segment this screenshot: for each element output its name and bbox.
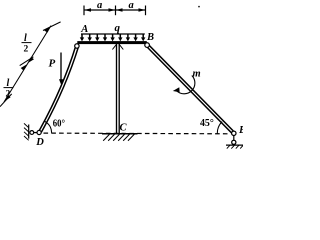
ground at C <box>102 133 138 135</box>
tick middle <box>20 57 34 66</box>
svg-text:m: m <box>193 69 201 80</box>
beam AB <box>77 41 147 44</box>
pin circle D <box>37 130 41 134</box>
vertical member C <box>116 44 118 134</box>
pin circle B <box>145 43 150 48</box>
tick top <box>43 22 61 31</box>
support E pin circle <box>232 131 236 135</box>
moment m arc <box>177 76 195 94</box>
tick bottom <box>0 94 12 107</box>
support D wall <box>28 125 30 139</box>
svg-text:B: B <box>146 32 154 43</box>
60 degree arc <box>44 121 51 133</box>
link bar D <box>32 132 39 134</box>
svg-text:a: a <box>97 0 102 11</box>
svg-text:2: 2 <box>24 45 29 55</box>
arrowheads of dimension <box>84 8 145 11</box>
svg-text:45°: 45° <box>200 118 214 129</box>
wall hatch <box>24 123 29 140</box>
stray ink speck <box>198 6 200 8</box>
ground hatch C <box>103 134 134 141</box>
load arrows <box>82 34 143 38</box>
tick middle <box>115 6 117 16</box>
svg-text:2: 2 <box>6 90 11 100</box>
ground line E <box>226 144 243 146</box>
svg-text:C: C <box>120 123 128 134</box>
ground hatch E <box>227 145 243 148</box>
45 degree arc <box>217 122 222 134</box>
dashed ground line <box>44 132 229 135</box>
distributed load line <box>81 33 145 35</box>
svg-text:P: P <box>49 58 56 70</box>
vertical member top flare <box>112 44 123 49</box>
svg-text:A: A <box>80 24 88 35</box>
label l/2 upper <box>22 33 32 55</box>
dimension line a+a top <box>84 9 146 11</box>
label l/2 lower <box>4 78 14 100</box>
svg-text:D: D <box>35 137 44 148</box>
link E <box>233 136 235 141</box>
right member BE <box>148 44 235 132</box>
left member AD <box>38 46 75 132</box>
wall pin circle <box>30 131 34 135</box>
tick left <box>83 6 85 16</box>
lower circle E <box>232 140 236 144</box>
l/2 dimension line <box>4 26 51 102</box>
svg-text:60°: 60° <box>53 119 65 130</box>
svg-text:q: q <box>115 22 121 34</box>
svg-text:E: E <box>238 125 243 136</box>
svg-text:a: a <box>129 0 134 11</box>
tick right <box>145 6 147 16</box>
pin circle A <box>75 44 79 48</box>
force P arrow <box>60 53 62 81</box>
dim arrowheads l/2 <box>4 26 50 101</box>
